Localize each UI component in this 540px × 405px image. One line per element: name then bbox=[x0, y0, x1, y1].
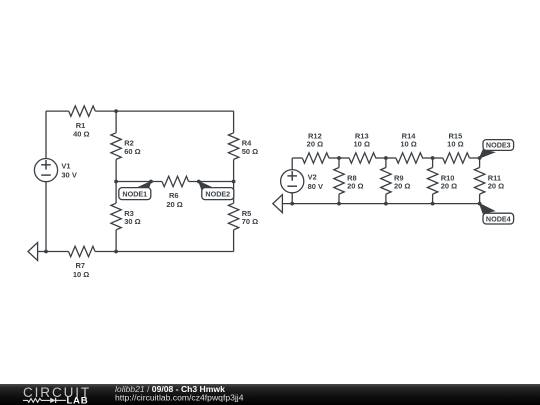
svg-text:30 V: 30 V bbox=[61, 171, 76, 180]
wire top rail after R14 bbox=[423, 157, 433, 159]
footer title line bbox=[115, 384, 225, 394]
label R3 bbox=[124, 209, 134, 218]
wire R5 top lead bbox=[233, 182, 235, 204]
node NODE4 flag bbox=[480, 204, 514, 224]
CircuitLab logo bbox=[0, 384, 540, 405]
resistor R2 bbox=[111, 133, 121, 160]
resistor R14 bbox=[396, 153, 423, 163]
node NODE2 flag bbox=[199, 182, 234, 200]
wire top rail right bbox=[95, 110, 233, 112]
value 20 &#937; (R6) bbox=[166, 200, 182, 209]
value 10 &#937; (R14) bbox=[400, 139, 416, 148]
svg-text:10 Ω: 10 Ω bbox=[354, 139, 370, 148]
value 70 &#937; (R5) bbox=[242, 217, 258, 226]
wire V1 bottom lead bbox=[45, 182, 47, 252]
wire mid rail left bbox=[116, 181, 162, 183]
svg-text:http://circuitlab.com/cz4fpwqf: http://circuitlab.com/cz4fpwqfp3jj4 bbox=[115, 393, 244, 403]
junction top rail / R2 bbox=[114, 109, 118, 113]
value 80 V (V2) bbox=[308, 182, 323, 191]
footer url line bbox=[115, 393, 244, 403]
value 20 &#937; (R11) bbox=[488, 182, 504, 191]
label R4 bbox=[242, 139, 252, 148]
svg-text:LAB: LAB bbox=[67, 396, 89, 405]
svg-text:10 Ω: 10 Ω bbox=[447, 139, 463, 148]
wire top rail left bbox=[46, 110, 69, 112]
svg-text:60 Ω: 60 Ω bbox=[124, 147, 140, 156]
svg-text:20 Ω: 20 Ω bbox=[347, 182, 363, 191]
footer bar bbox=[0, 384, 540, 405]
label R12 bbox=[308, 132, 322, 141]
svg-text:40 Ω: 40 Ω bbox=[73, 129, 89, 138]
resistor R8 bbox=[334, 168, 344, 195]
svg-text:20 Ω: 20 Ω bbox=[441, 182, 457, 191]
wire R4 bottom lead bbox=[233, 159, 235, 181]
resistor R13 bbox=[349, 153, 376, 163]
svg-text:30 Ω: 30 Ω bbox=[124, 217, 140, 226]
value 30 &#937; (R3) bbox=[124, 217, 140, 226]
wire top rail before R12 bbox=[292, 157, 302, 159]
value 20 &#937; (R9) bbox=[394, 182, 410, 191]
junction bottom rail / R3 bbox=[114, 250, 118, 254]
value 20 &#937; (R10) bbox=[441, 182, 457, 191]
junction top rail / R8 bbox=[337, 156, 341, 160]
label R14 bbox=[402, 132, 417, 141]
wire mid rail right bbox=[189, 181, 234, 183]
svg-text:NODE2: NODE2 bbox=[205, 189, 230, 198]
logo word LAB bbox=[67, 396, 89, 405]
wire R4 top lead bbox=[233, 111, 235, 133]
wire R5 bottom lead bbox=[233, 230, 235, 252]
label V2 bbox=[308, 172, 317, 181]
svg-text:V2: V2 bbox=[308, 172, 317, 181]
value 60 &#937; (R2) bbox=[124, 147, 140, 156]
node NODE3 flag bbox=[480, 140, 514, 158]
wire R8 bottom lead bbox=[338, 194, 340, 204]
svg-text:20 Ω: 20 Ω bbox=[166, 200, 182, 209]
ground left circuit bbox=[28, 243, 38, 261]
wire bottom rail right bbox=[95, 251, 234, 253]
wire R10 top lead bbox=[432, 158, 434, 168]
wire top rail before R14 bbox=[386, 157, 396, 159]
junction bottom rail / R10 bbox=[431, 202, 435, 206]
value 10 &#937; (R7) bbox=[73, 270, 89, 279]
label R5 bbox=[242, 209, 252, 218]
value 30 V (V1) bbox=[61, 171, 76, 180]
resistor R5 bbox=[228, 203, 238, 230]
wire top rail before R13 bbox=[339, 157, 349, 159]
value 20 &#937; (R8) bbox=[347, 182, 363, 191]
svg-text:20 Ω: 20 Ω bbox=[394, 182, 410, 191]
resistor R11 bbox=[474, 168, 484, 195]
label R7 bbox=[76, 261, 86, 270]
node NODE1 tip bbox=[149, 180, 153, 184]
resistor R15 bbox=[443, 153, 470, 163]
resistor R7 bbox=[69, 246, 96, 256]
label R10 bbox=[441, 173, 455, 182]
svg-text:NODE1: NODE1 bbox=[122, 189, 147, 198]
svg-text:70 Ω: 70 Ω bbox=[242, 217, 258, 226]
svg-text:NODE4: NODE4 bbox=[486, 214, 511, 223]
label R15 bbox=[449, 132, 463, 141]
wire R9 bottom lead bbox=[385, 194, 387, 204]
resistor R12 bbox=[302, 153, 329, 163]
label R9 bbox=[394, 173, 404, 182]
label V1 bbox=[61, 161, 70, 170]
resistor R4 bbox=[228, 133, 238, 160]
value 40 &#937; (R1) bbox=[73, 129, 89, 138]
svg-text:20 Ω: 20 Ω bbox=[488, 182, 504, 191]
voltage source V1 bbox=[34, 159, 57, 182]
wire V2 bottom lead bbox=[291, 193, 293, 204]
wire bottom rail right circuit bbox=[282, 203, 479, 205]
wire R9 top lead bbox=[385, 158, 387, 168]
svg-text:50 Ω: 50 Ω bbox=[242, 147, 258, 156]
node NODE2 tip bbox=[197, 180, 201, 184]
label R8 bbox=[347, 173, 357, 182]
value 50 &#937; (R4) bbox=[242, 147, 258, 156]
junction bottom rail / R9 bbox=[384, 202, 388, 206]
wire R3 bottom lead bbox=[115, 230, 117, 252]
svg-text:10 Ω: 10 Ω bbox=[73, 270, 89, 279]
node NODE4 tip bbox=[478, 202, 482, 206]
wire top rail after R12 bbox=[329, 157, 339, 159]
logo resistor-diode wire bbox=[23, 398, 66, 403]
junction bottom rail / V1 bbox=[44, 250, 48, 254]
label R6 bbox=[169, 191, 179, 200]
wire top rail after R13 bbox=[376, 157, 386, 159]
label R11 bbox=[488, 173, 501, 182]
wire R2 bottom lead bbox=[115, 159, 117, 181]
wire R2 top lead bbox=[115, 111, 117, 133]
label R1 bbox=[76, 121, 86, 130]
resistor R1 bbox=[69, 106, 96, 116]
junction top rail / R9 bbox=[384, 156, 388, 160]
resistor R9 bbox=[381, 168, 391, 195]
svg-text:80 V: 80 V bbox=[308, 182, 323, 191]
junction bottom rail / R8 bbox=[337, 202, 341, 206]
label R2 bbox=[124, 139, 134, 148]
wire top rail after R15 bbox=[469, 157, 479, 159]
logo word CIRCUIT bbox=[23, 385, 91, 400]
wire R11 top lead bbox=[479, 158, 481, 168]
svg-text:10 Ω: 10 Ω bbox=[400, 139, 416, 148]
voltage source V2 bbox=[281, 170, 304, 193]
label R13 bbox=[355, 132, 369, 141]
wire R10 bottom lead bbox=[432, 194, 434, 204]
value 10 &#937; (R15) bbox=[447, 139, 463, 148]
wire bottom rail left bbox=[38, 251, 69, 253]
junction mid rail / R4 R5 bbox=[232, 180, 236, 184]
resistor R6 bbox=[162, 176, 189, 186]
value 10 &#937; (R13) bbox=[354, 139, 370, 148]
junction bottom rail / V2 bbox=[290, 202, 294, 206]
resistor R3 bbox=[111, 203, 121, 230]
svg-text:V1: V1 bbox=[61, 161, 70, 170]
value 20 &#937; (R12) bbox=[307, 139, 323, 148]
wire R8 top lead bbox=[338, 158, 340, 168]
resistor R10 bbox=[427, 168, 437, 195]
junction mid rail / R2 R3 bbox=[114, 180, 118, 184]
svg-text:NODE3: NODE3 bbox=[486, 141, 511, 150]
wire V1 top lead bbox=[45, 111, 47, 158]
ground right circuit bbox=[273, 195, 283, 213]
node NODE3 tip bbox=[478, 156, 482, 160]
wire R11 bottom lead bbox=[479, 194, 481, 204]
node NODE1 flag bbox=[119, 182, 151, 200]
svg-text:20 Ω: 20 Ω bbox=[307, 139, 323, 148]
junction top rail / R10 bbox=[431, 156, 435, 160]
wire top rail before R15 bbox=[433, 157, 443, 159]
wire R3 top lead bbox=[115, 182, 117, 204]
wire V2 top lead bbox=[291, 158, 293, 170]
